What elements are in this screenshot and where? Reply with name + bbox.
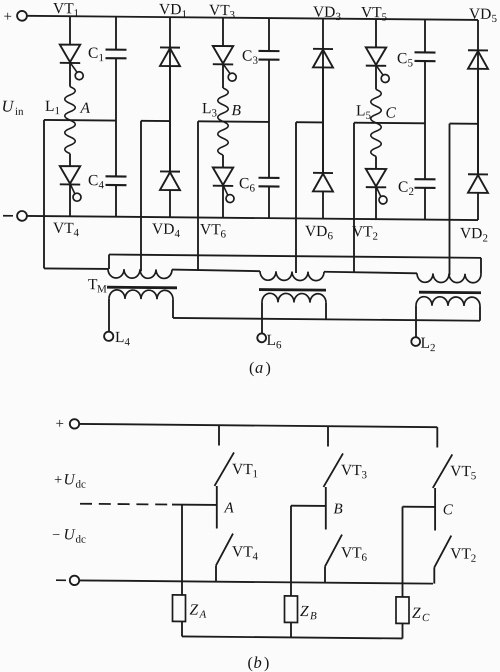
svg-text:1: 1 <box>74 7 79 19</box>
svg-text:a: a <box>255 358 263 377</box>
svg-text:5: 5 <box>471 470 477 482</box>
svg-text:2: 2 <box>471 553 476 565</box>
svg-text:C: C <box>242 47 252 64</box>
svg-text:L: L <box>421 335 430 352</box>
svg-text:+: + <box>4 9 12 25</box>
svg-text:C: C <box>397 50 407 67</box>
svg-text:1: 1 <box>55 105 60 117</box>
svg-text:): ) <box>266 360 271 377</box>
svg-text:VD: VD <box>460 225 482 242</box>
svg-text:C: C <box>239 175 249 192</box>
svg-text:VT: VT <box>341 544 362 561</box>
svg-text:(: ( <box>249 360 254 377</box>
svg-text:B: B <box>310 610 317 622</box>
svg-text:3: 3 <box>212 107 218 119</box>
svg-text:VT: VT <box>53 0 74 17</box>
svg-text:dc: dc <box>76 479 86 491</box>
svg-text:C: C <box>88 45 98 62</box>
svg-text:6: 6 <box>362 552 368 564</box>
svg-text:1: 1 <box>253 468 258 480</box>
svg-text:VD: VD <box>152 221 174 238</box>
svg-text:(: ( <box>248 655 253 672</box>
svg-text:U: U <box>2 97 15 116</box>
svg-text:A: A <box>224 500 235 516</box>
svg-text:VD: VD <box>469 6 491 23</box>
svg-text:VT: VT <box>209 2 230 19</box>
svg-text:2: 2 <box>373 231 378 243</box>
svg-text:2: 2 <box>430 342 435 354</box>
svg-text:b: b <box>254 653 262 672</box>
svg-text:A: A <box>80 100 91 117</box>
svg-text:3: 3 <box>362 469 368 481</box>
svg-text:VT: VT <box>450 463 471 480</box>
svg-text:C: C <box>422 612 430 624</box>
svg-text:VD: VD <box>313 4 335 21</box>
svg-text:6: 6 <box>328 230 334 242</box>
svg-text:C: C <box>88 172 98 189</box>
svg-text:6: 6 <box>276 339 282 351</box>
svg-text:VD: VD <box>305 223 327 240</box>
svg-text:): ) <box>264 655 269 672</box>
svg-text:L: L <box>115 329 124 346</box>
svg-text:VT: VT <box>352 223 373 240</box>
svg-text:VT: VT <box>361 4 382 21</box>
svg-text:−: − <box>52 527 60 543</box>
svg-text:VT: VT <box>53 220 74 237</box>
svg-text:M: M <box>97 283 107 295</box>
svg-text:4: 4 <box>74 227 80 239</box>
svg-text:dc: dc <box>76 534 86 546</box>
svg-text:2: 2 <box>483 232 488 244</box>
svg-text:C: C <box>443 502 454 518</box>
svg-text:VT: VT <box>232 543 253 560</box>
svg-text:C: C <box>386 104 397 121</box>
svg-text:L: L <box>202 100 211 117</box>
svg-text:in: in <box>15 106 24 118</box>
svg-text:5: 5 <box>382 11 388 23</box>
svg-text:VT: VT <box>232 461 253 478</box>
svg-text:A: A <box>199 609 207 621</box>
svg-text:5: 5 <box>492 13 498 25</box>
svg-text:6: 6 <box>221 229 227 241</box>
svg-text:L: L <box>356 102 365 119</box>
svg-text:3: 3 <box>336 11 342 23</box>
svg-text:VT: VT <box>200 221 221 238</box>
svg-text:VD: VD <box>159 1 181 18</box>
svg-text:5: 5 <box>366 110 372 122</box>
svg-text:+: + <box>56 416 64 432</box>
svg-text:L: L <box>45 98 54 115</box>
svg-text:4: 4 <box>253 551 259 563</box>
svg-text:6: 6 <box>250 182 256 194</box>
svg-text:+: + <box>54 472 62 488</box>
svg-text:C: C <box>398 179 408 196</box>
svg-text:1: 1 <box>182 8 187 20</box>
svg-text:5: 5 <box>408 57 414 69</box>
svg-text:3: 3 <box>253 55 259 67</box>
svg-text:Z: Z <box>190 602 199 619</box>
svg-text:B: B <box>334 501 343 517</box>
svg-text:4: 4 <box>175 228 181 240</box>
svg-text:1: 1 <box>99 52 104 64</box>
svg-text:3: 3 <box>230 9 236 21</box>
svg-text:VT: VT <box>341 462 362 479</box>
svg-text:VT: VT <box>450 545 471 562</box>
svg-text:2: 2 <box>409 186 414 198</box>
svg-text:L: L <box>267 332 276 349</box>
svg-text:Z: Z <box>300 603 309 620</box>
svg-text:Z: Z <box>412 605 421 622</box>
svg-text:B: B <box>232 102 242 119</box>
svg-text:4: 4 <box>99 179 105 191</box>
svg-text:4: 4 <box>125 336 131 348</box>
